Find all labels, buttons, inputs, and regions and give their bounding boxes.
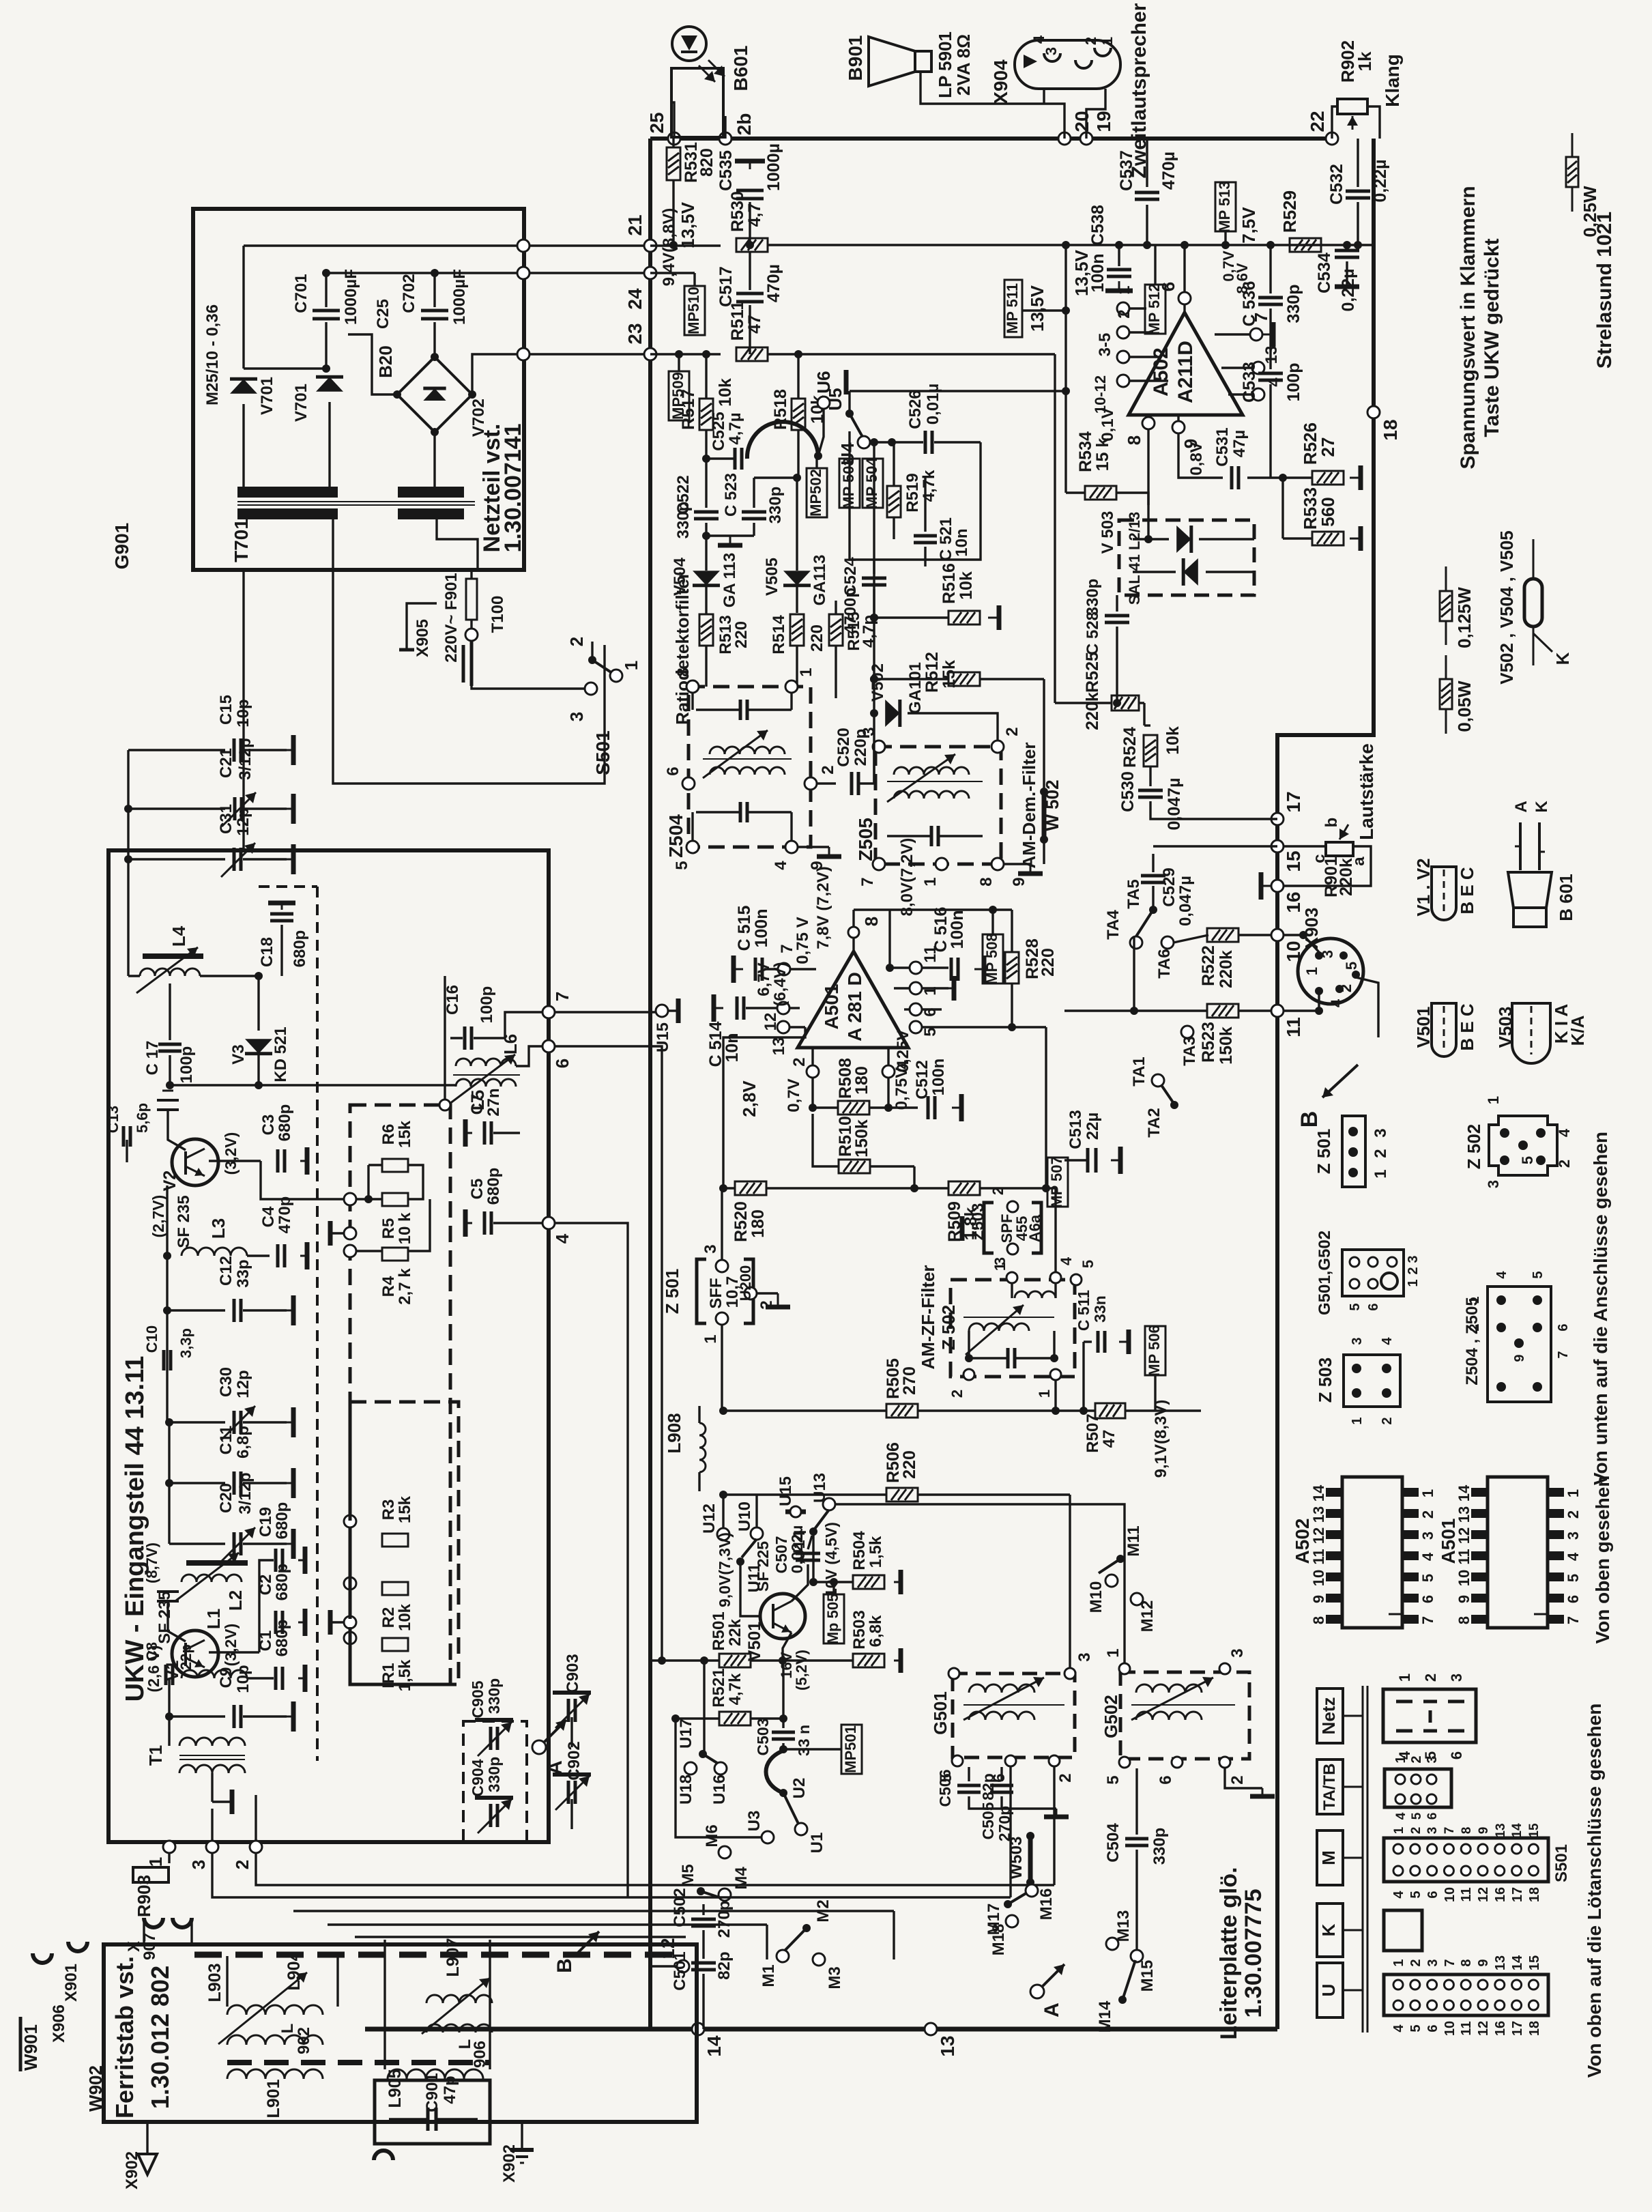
- wire C701 branch: [325, 273, 327, 307]
- svg-text:T1: T1: [145, 1745, 166, 1766]
- mains cord: [470, 642, 474, 686]
- switch TA1 TA2: [1152, 1074, 1164, 1087]
- svg-text:5: 5: [921, 1027, 940, 1036]
- svg-text:2: 2: [566, 637, 587, 646]
- transformer T1: [168, 1717, 170, 1746]
- svg-text:Leiterplatte glö.: Leiterplatte glö.: [1216, 1867, 1242, 2039]
- capacitor C528 330p: [1105, 614, 1129, 618]
- svg-text:18: 18: [1527, 1887, 1542, 1902]
- wire to left diode join: [244, 367, 330, 369]
- svg-text:B 601: B 601: [1556, 874, 1576, 921]
- svg-text:3: 3: [1075, 1652, 1094, 1661]
- capacitor C5 680p: [483, 1211, 487, 1235]
- svg-text:3: 3: [1043, 47, 1060, 55]
- switch M17 M16: [1004, 1900, 1012, 1908]
- svg-text:1,5k: 1,5k: [396, 1659, 414, 1691]
- svg-text:1k: 1k: [1354, 51, 1375, 71]
- svg-text:10: 10: [1443, 1887, 1458, 1902]
- svg-text:R511: R511: [728, 301, 747, 341]
- resistor R520 180: [735, 1181, 766, 1195]
- svg-text:25: 25: [646, 112, 667, 133]
- svg-text:0,125W: 0,125W: [1454, 587, 1475, 648]
- wire column x1281 upper: [873, 442, 875, 589]
- svg-text:C534: C534: [1315, 253, 1334, 293]
- svg-text:13,5V: 13,5V: [1027, 285, 1047, 332]
- svg-text:2: 2: [948, 1390, 966, 1398]
- svg-text:M15: M15: [1138, 1960, 1157, 1992]
- capacitor C904 330p trimmer: [489, 1804, 493, 1827]
- contact M14: [1118, 1996, 1127, 2004]
- svg-text:B601: B601: [730, 46, 751, 91]
- svg-text:Strelasund 1021: Strelasund 1021: [1593, 212, 1616, 369]
- svg-text:17: 17: [1510, 2021, 1525, 2036]
- fuse F901: [466, 579, 477, 620]
- svg-text:(2,7V): (2,7V): [149, 1195, 167, 1238]
- coil L906 L907: [426, 1995, 492, 2003]
- svg-text:M18: M18: [989, 1924, 1008, 1956]
- svg-text:1: 1: [1393, 1755, 1408, 1763]
- svg-text:15 k: 15 k: [1093, 438, 1112, 472]
- svg-text:A501: A501: [821, 984, 842, 1030]
- svg-text:Z 502: Z 502: [1464, 1124, 1484, 1170]
- Z505 internal capacitor: [930, 826, 933, 846]
- svg-text:L905: L905: [386, 2069, 405, 2108]
- resistor R531 820: [672, 139, 674, 147]
- wire Z501 pin1 down: [722, 1325, 723, 1411]
- svg-text:C903: C903: [564, 1654, 582, 1693]
- speaker B901: [869, 37, 915, 86]
- resistor R512 15k: [948, 672, 980, 686]
- svg-text:V701: V701: [258, 377, 276, 415]
- svg-text:C 17: C 17: [143, 1041, 162, 1076]
- pin 17: [1271, 813, 1284, 825]
- capacitor C17 100p: [158, 1043, 182, 1046]
- svg-text:902: 902: [295, 2027, 313, 2054]
- LED indicator B601: [671, 68, 723, 137]
- svg-text:L2: L2: [225, 1590, 246, 1611]
- svg-text:12p: 12p: [234, 807, 252, 835]
- G502 coils: [1136, 1684, 1202, 1693]
- svg-text:7,5V: 7,5V: [1238, 207, 1259, 244]
- svg-text:R4: R4: [379, 1276, 398, 1297]
- UKW bottom pins 1 3 2: [163, 1841, 175, 1853]
- svg-text:2: 2: [1565, 1510, 1582, 1519]
- svg-text:C1: C1: [257, 1631, 275, 1652]
- svg-text:12p: 12p: [234, 1370, 252, 1398]
- capacitor C522 330p: [705, 459, 707, 508]
- wire pin7 to U15: [555, 1011, 656, 1013]
- svg-text:47µ: 47µ: [1230, 430, 1249, 458]
- svg-text:V702: V702: [469, 399, 488, 437]
- svg-text:2: 2: [1082, 37, 1099, 45]
- svg-text:2: 2: [1115, 309, 1133, 318]
- transformer T701 windings: [237, 487, 338, 498]
- capacitor C9 10p: [169, 1715, 225, 1717]
- svg-text:R6: R6: [379, 1124, 398, 1145]
- svg-text:C8: C8: [143, 1642, 160, 1661]
- svg-text:Z504 , Z505: Z504 , Z505: [1463, 1297, 1481, 1385]
- svg-text:330p: 330p: [485, 1678, 503, 1714]
- capacitor C524 4700p: [862, 577, 886, 580]
- svg-text:1.30.007141: 1.30.007141: [500, 423, 526, 552]
- svg-text:220: 220: [900, 1450, 919, 1479]
- svg-text:27: 27: [1318, 437, 1338, 457]
- G502 bottom pins: [1119, 1757, 1130, 1768]
- capacitor C516 100n: [950, 958, 953, 981]
- wire pin24 to border: [530, 272, 650, 274]
- diode V503a: [1176, 526, 1191, 553]
- svg-text:680p: 680p: [484, 1168, 503, 1205]
- capacitor C12 33p: [167, 1309, 225, 1311]
- svg-text:R903: R903: [134, 1875, 154, 1917]
- svg-text:330p: 330p: [1084, 579, 1102, 616]
- testpoint MP513: [1215, 182, 1236, 231]
- svg-text:3,3p: 3,3p: [177, 1328, 194, 1358]
- svg-text:15k: 15k: [396, 1120, 414, 1148]
- coil L4 variable: [143, 953, 203, 959]
- capacitor C21 3/12p trimmer: [128, 807, 225, 809]
- rail 13,5V wire: [767, 244, 1374, 246]
- svg-text:3: 3: [1485, 1180, 1502, 1188]
- capacitor C11 6,8p: [169, 1422, 225, 1483]
- capacitor C514 10n: [714, 1007, 723, 1009]
- svg-text:0,022µ: 0,022µ: [788, 1525, 806, 1574]
- svg-text:S501: S501: [1552, 1844, 1571, 1882]
- svg-text:1.30.012 802: 1.30.012 802: [146, 1966, 174, 2109]
- svg-text:C530: C530: [1118, 771, 1137, 812]
- svg-text:22: 22: [1307, 111, 1328, 132]
- antenna X902: [146, 2122, 148, 2154]
- svg-text:R516: R516: [940, 563, 959, 604]
- svg-text:2VA 8Ω: 2VA 8Ω: [953, 34, 974, 96]
- svg-text:Z 502: Z 502: [938, 1305, 959, 1351]
- svg-text:M25/10 - 0,36: M25/10 - 0,36: [203, 304, 222, 405]
- svg-text:R525: R525: [1083, 652, 1102, 693]
- svg-text:1000µ: 1000µ: [764, 143, 783, 191]
- svg-text:V2: V2: [160, 1170, 179, 1192]
- svg-text:11: 11: [1455, 1549, 1473, 1564]
- svg-text:MP501: MP501: [842, 1725, 859, 1773]
- contact M18: [1006, 1915, 1018, 1927]
- svg-text:5: 5: [1104, 1775, 1122, 1784]
- svg-text:12: 12: [1476, 1887, 1491, 1902]
- svg-text:22µ: 22µ: [1084, 1112, 1102, 1140]
- Z504 ground pin 9: [798, 846, 829, 848]
- svg-text:SF 225: SF 225: [754, 1541, 772, 1592]
- svg-text:0,8V: 0,8V: [1187, 442, 1206, 475]
- wire L908: [698, 1406, 700, 1423]
- wire bridge to pin 23: [472, 354, 523, 394]
- svg-text:16: 16: [1493, 1887, 1508, 1902]
- resistor R533 560: [1312, 532, 1344, 545]
- svg-text:1: 1: [1467, 1296, 1482, 1304]
- svg-text:3: 3: [1425, 1827, 1440, 1835]
- svg-text:C2: C2: [257, 1575, 275, 1596]
- capacitor C20 3/12p trimmer: [168, 1483, 170, 1544]
- svg-text:5: 5: [1419, 1574, 1436, 1582]
- svg-text:R521: R521: [710, 1668, 728, 1707]
- Ferritstab box: [104, 1944, 697, 2122]
- svg-text:AM-ZF-Filter: AM-ZF-Filter: [918, 1265, 938, 1369]
- capacitor C533 100p: [1269, 368, 1271, 369]
- legend resistor 0,125W: [1445, 566, 1447, 590]
- svg-text:270p: 270p: [715, 1901, 734, 1938]
- capacitor C7 27n: [483, 1121, 487, 1145]
- svg-text:13: 13: [1494, 1823, 1508, 1837]
- svg-text:SAL 41 L2/13: SAL 41 L2/13: [1126, 512, 1143, 605]
- svg-text:100p: 100p: [478, 986, 496, 1024]
- wire R525 node left to AGC: [1054, 354, 1056, 703]
- svg-text:1: 1: [1419, 1489, 1436, 1497]
- capacitor C529 0,047u: [1153, 845, 1277, 847]
- Z504 internal capacitor: [739, 700, 742, 720]
- jumper arc U6: [747, 422, 818, 459]
- svg-text:6: 6: [1448, 1751, 1465, 1759]
- svg-text:KD 521: KD 521: [272, 1026, 290, 1082]
- wire net V501 collector: [782, 1656, 784, 1718]
- potentiometer R901 volume: [1326, 842, 1353, 856]
- dashed box gang: [463, 1721, 527, 1842]
- svg-text:Klang: Klang: [1382, 54, 1403, 107]
- capacitor C18 680p: [270, 913, 293, 916]
- svg-text:4,7: 4,7: [745, 203, 764, 227]
- svg-text:C18: C18: [258, 937, 276, 967]
- svg-text:0,05W: 0,05W: [1454, 680, 1475, 732]
- svg-text:MP502: MP502: [807, 469, 824, 517]
- legend diode V502 V504 V505: [1533, 539, 1535, 579]
- svg-text:33 n: 33 n: [795, 1725, 813, 1756]
- capacitor C517 470u: [749, 252, 751, 290]
- pin 23: [644, 348, 656, 360]
- contacts M6 M5 M4: [719, 1846, 731, 1858]
- svg-text:Ferritstab vst.: Ferritstab vst.: [111, 1956, 139, 2118]
- wire transformer to S501 area: [333, 570, 605, 784]
- svg-text:C531: C531: [1213, 427, 1232, 466]
- svg-text:C30: C30: [217, 1367, 235, 1397]
- svg-text:680p: 680p: [273, 1564, 291, 1601]
- svg-text:1: 1: [1372, 1169, 1390, 1178]
- svg-text:C905: C905: [469, 1680, 487, 1718]
- legend resistor 0,25W: [1571, 133, 1574, 157]
- svg-text:470p: 470p: [276, 1196, 294, 1234]
- svg-text:C5: C5: [468, 1179, 487, 1200]
- filter Z504 dashed box: [689, 687, 811, 847]
- connector rail vertical: [1362, 1686, 1364, 2033]
- svg-text:V501: V501: [1413, 1007, 1434, 1048]
- svg-text:100p: 100p: [1284, 363, 1303, 402]
- pin 7 A501: [778, 963, 790, 975]
- resistor R509 1,8k: [948, 1181, 980, 1195]
- svg-text:M10: M10: [1087, 1581, 1105, 1613]
- svg-text:100p: 100p: [177, 1046, 196, 1084]
- svg-text:6,8k: 6,8k: [867, 1615, 885, 1647]
- resistor R511 47: [736, 347, 768, 361]
- svg-text:W901: W901: [20, 2024, 41, 2071]
- svg-text:470µ: 470µ: [1159, 152, 1178, 190]
- svg-text:C 511: C 511: [1075, 1290, 1092, 1331]
- legend transistor V1 V2: [1432, 867, 1456, 920]
- svg-text:C537: C537: [1117, 150, 1136, 191]
- svg-text:b: b: [1322, 818, 1341, 828]
- svg-text:C12: C12: [217, 1256, 235, 1286]
- capacitor C538 100n: [1118, 245, 1120, 266]
- svg-text:47: 47: [1100, 1430, 1118, 1448]
- resistor R529: [1290, 238, 1321, 252]
- svg-text:100n: 100n: [948, 910, 967, 949]
- svg-text:SF 235: SF 235: [156, 1591, 174, 1643]
- coil L905: [388, 2069, 483, 2079]
- capacitor C1 680p: [274, 1667, 278, 1690]
- svg-text:V501: V501: [745, 1622, 764, 1661]
- svg-text:100n: 100n: [752, 909, 771, 948]
- svg-text:B E C: B E C: [1457, 867, 1477, 915]
- svg-text:M11: M11: [1125, 1525, 1143, 1556]
- svg-text:MP 503: MP 503: [840, 457, 857, 508]
- resistor R5 10k: [382, 1193, 408, 1206]
- svg-text:15k: 15k: [940, 660, 959, 689]
- testpoint MP503: [839, 459, 860, 508]
- svg-text:X904: X904: [990, 59, 1011, 104]
- capacitor C503 33n: [772, 1731, 795, 1734]
- svg-text:Von oben auf die Lötanschlüsse: Von oben auf die Lötanschlüsse gesehen: [1584, 1704, 1605, 2078]
- filter G501 dashed box: [953, 1674, 1075, 1757]
- resistor R513 220: [699, 614, 713, 646]
- svg-text:14: 14: [1510, 1823, 1524, 1838]
- svg-text:1: 1: [1392, 1826, 1406, 1834]
- pin 11 A501: [910, 962, 922, 974]
- svg-text:S501: S501: [592, 730, 613, 775]
- hook X906: [33, 1953, 52, 1963]
- svg-text:18: 18: [1380, 419, 1401, 440]
- testpoint MP512: [1145, 285, 1165, 334]
- svg-text:11: 11: [1459, 1887, 1474, 1901]
- svg-text:MP 513: MP 513: [1216, 181, 1233, 232]
- capacitor C501 82p: [691, 1962, 716, 1965]
- resistor R503 6,8k: [853, 1654, 884, 1667]
- svg-text:C16: C16: [444, 985, 462, 1015]
- resistor R501 22k: [719, 1654, 751, 1667]
- svg-text:12: 12: [1310, 1527, 1327, 1544]
- potentiometer R902 Klang: [1337, 99, 1367, 114]
- coil L903 L904: [227, 2005, 323, 2015]
- R123 wires: [344, 1515, 356, 1527]
- wire V503 box to C528 column: [1116, 595, 1118, 612]
- Z502 coil: [969, 1323, 1029, 1331]
- oscillator dashed box: [350, 1105, 450, 1684]
- svg-text:R503: R503: [850, 1610, 869, 1649]
- svg-text:L: L: [278, 2024, 297, 2034]
- svg-text:0,75V: 0,75V: [893, 1067, 911, 1110]
- DIP package A502: [1342, 1477, 1402, 1628]
- capacitor C702 1000uF: [433, 273, 435, 307]
- testpoint MP509: [669, 371, 689, 420]
- hook X907 left: [144, 1918, 163, 1927]
- capacitor C531 47u: [1178, 433, 1223, 478]
- svg-text:3: 3: [1565, 1532, 1582, 1540]
- svg-text:2: 2: [1406, 1267, 1421, 1274]
- ground C523: [706, 534, 754, 536]
- svg-text:680p: 680p: [276, 1104, 294, 1142]
- svg-text:4: 4: [552, 1233, 573, 1244]
- wire bridge bottom to transformer: [433, 432, 435, 487]
- capacitor C504 330p: [1125, 1837, 1148, 1841]
- svg-text:8: 8: [1124, 435, 1144, 445]
- capacitor C505 270p: [990, 1784, 1013, 1787]
- resistor R516 10k: [948, 611, 980, 624]
- diode box V503 SAL41: [1119, 520, 1254, 595]
- svg-text:C501: C501: [671, 1951, 689, 1990]
- switch TA3: [1181, 1026, 1193, 1038]
- contacts U12 U10 U15 U13: [717, 1528, 729, 1540]
- svg-text:U200: U200: [737, 1265, 754, 1302]
- pin 14: [692, 2023, 704, 2035]
- svg-text:A211D: A211D: [1174, 341, 1197, 403]
- wire pin13 to R520 column: [723, 1027, 805, 1188]
- filter G502 dashed box: [1120, 1672, 1249, 1759]
- connector K: [1384, 1910, 1422, 1951]
- svg-text:0,75 V: 0,75 V: [794, 917, 812, 964]
- resistor R534 15k: [1085, 486, 1116, 500]
- wire U13 to G501: [835, 1504, 1125, 1665]
- svg-text:X901: X901: [62, 1964, 81, 2002]
- svg-text:20: 20: [1071, 111, 1092, 132]
- svg-text:U12: U12: [700, 1504, 719, 1534]
- capacitor C19 680p: [209, 1651, 259, 1653]
- testpoint MP506: [1145, 1326, 1165, 1375]
- capacitor C31 12p trimmer: [128, 858, 225, 860]
- filter Z502 dashed box AM-ZF: [951, 1280, 1075, 1377]
- svg-text:10k: 10k: [1163, 726, 1183, 755]
- svg-text:U3: U3: [745, 1811, 764, 1832]
- svg-text:180: 180: [749, 1209, 768, 1238]
- label box TA/TB: [1317, 1759, 1343, 1814]
- svg-text:3: 3: [1350, 1337, 1365, 1345]
- pin 19: [1080, 132, 1092, 145]
- resistor R528 220: [1005, 952, 1019, 983]
- svg-text:1,5k: 1,5k: [867, 1536, 885, 1568]
- svg-text:3: 3: [1448, 1674, 1465, 1682]
- svg-text:1: 1: [1391, 1959, 1406, 1966]
- svg-text:560: 560: [1318, 497, 1338, 526]
- svg-text:10: 10: [1443, 2021, 1458, 2036]
- svg-text:1: 1: [797, 667, 815, 676]
- Z504 side pins: [682, 777, 695, 790]
- svg-text:33n: 33n: [1091, 1295, 1109, 1323]
- coil L3: [166, 1186, 168, 1256]
- svg-text:C21: C21: [217, 748, 235, 778]
- svg-text:T701: T701: [231, 519, 252, 562]
- pin 2b: [719, 132, 731, 145]
- svg-text:4: 4: [1391, 2024, 1406, 2033]
- svg-text:9: 9: [1477, 1827, 1491, 1835]
- svg-text:8: 8: [1460, 1827, 1474, 1835]
- capacitor C525 4,7u: [705, 431, 707, 459]
- svg-text:13: 13: [937, 2035, 958, 2056]
- resistor R507 47: [1095, 1403, 1125, 1418]
- wire speaker leads: [1043, 89, 1045, 104]
- wire from V701 down: [242, 246, 244, 369]
- Z504 coil primary: [710, 747, 785, 754]
- UKW pin 7: [542, 1006, 555, 1018]
- svg-text:47: 47: [745, 315, 764, 334]
- Z502 bottom pins: [963, 1369, 974, 1380]
- hook X907 right: [173, 1918, 192, 1927]
- resistor R505 270: [886, 1404, 918, 1418]
- svg-text:5: 5: [1343, 962, 1360, 970]
- pins 2 4 A501 bottom: [807, 1065, 819, 1078]
- pin 8 A501: [852, 910, 854, 951]
- resistor R526 27: [1312, 471, 1344, 485]
